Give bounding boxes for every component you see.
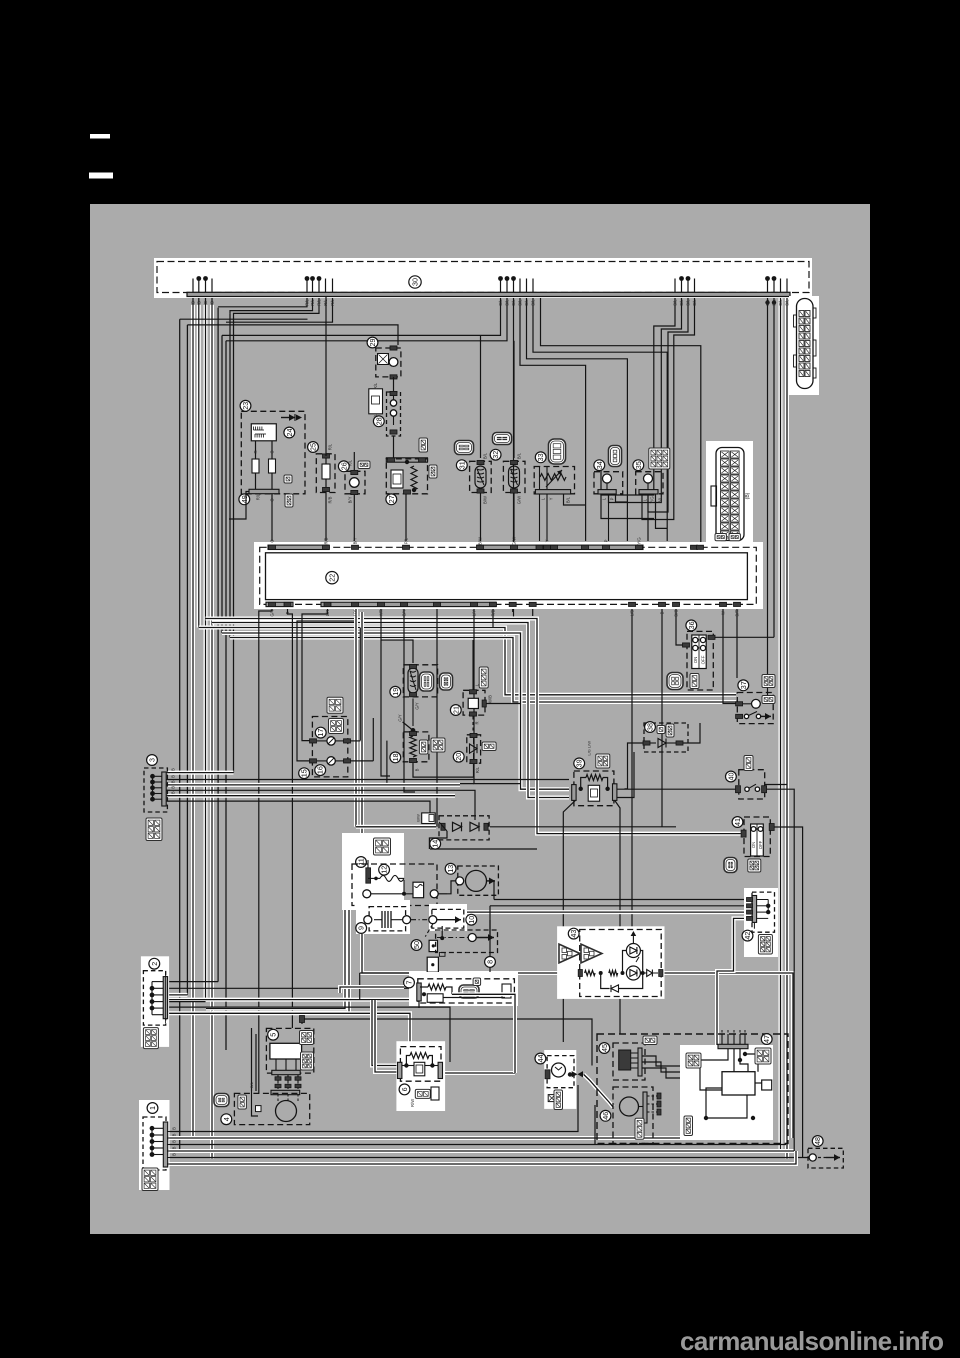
svg-text:41: 41	[733, 818, 742, 826]
switch 40 contacts	[736, 786, 741, 793]
circled number 46	[600, 1110, 611, 1121]
diode unit 14 wire left	[356, 825, 436, 829]
connector 2 harness wires	[167, 981, 218, 983]
svg-text:B/L: B/L	[524, 299, 529, 306]
regulator 5 body	[270, 1043, 302, 1059]
connector 3 pin grid icon	[146, 818, 162, 841]
svg-text:45: 45	[600, 1044, 609, 1052]
ignition coil connector icon	[374, 838, 391, 855]
relay 45 link wires	[631, 1052, 638, 1054]
svg-text:30: 30	[411, 278, 420, 286]
vertical riser x360	[359, 628, 361, 741]
svg-text:B/L: B/L	[692, 299, 697, 306]
injector 31 wire down	[480, 493, 482, 541]
diode 14 input junction	[441, 823, 445, 830]
right feed drops L from top bus to sensors 33-35	[601, 297, 675, 496]
circled number 49	[239, 494, 250, 505]
svg-text:10: 10	[467, 916, 476, 924]
wire connector2 to rectifier area	[167, 1007, 450, 1062]
circled number 23	[240, 400, 251, 411]
sensor 35 connector icon	[649, 448, 670, 469]
connector 2 white panel	[141, 956, 169, 1047]
switch pins	[310, 739, 317, 743]
relay 39 junction dots	[579, 787, 583, 791]
wire ECU pin B-O down to switch 36	[676, 608, 683, 645]
battery lead 48 dashed box	[808, 1148, 843, 1168]
switch 28 pins	[390, 391, 397, 395]
solenoid 19 wire up	[381, 640, 413, 663]
left trunk halo overlay for harness drops	[191, 305, 195, 1138]
sub box 45 dashed	[613, 1043, 645, 1080]
ignition coil core box	[413, 882, 424, 898]
svg-text:G/Y: G/Y	[415, 702, 420, 709]
indicator 43 lower LED	[626, 966, 640, 980]
relay 39 risers to diode 38	[625, 743, 646, 789]
sensor 18 resistor	[410, 736, 416, 757]
ignition area white panel	[342, 833, 404, 910]
regulator 5 interface dashes	[277, 1075, 279, 1089]
diode unit 14 wire right to switch 36 region	[490, 826, 676, 828]
relay 7 coil box	[427, 994, 443, 1003]
fuse 25 wires	[325, 297, 327, 457]
indicator unit 43 white panel	[557, 926, 664, 999]
relay 27 connector icons	[419, 438, 428, 452]
svg-text:B: B	[171, 780, 176, 783]
diode 14 element 1	[453, 822, 462, 831]
diode 14 wire down-right	[429, 831, 447, 849]
sensor 26 wires	[353, 455, 355, 470]
ground 8 arrow	[476, 937, 494, 939]
motor 46 interface dashes	[647, 1095, 658, 1097]
switch 40 connector icon	[744, 756, 753, 771]
svg-text:Y/R: Y/R	[379, 610, 384, 617]
switch right wires	[350, 740, 360, 742]
svg-text:Y: Y	[549, 497, 554, 500]
svg-text:R/L: R/L	[256, 493, 261, 500]
starter relay 39 wires down	[563, 800, 575, 1042]
svg-text:B/L: B/L	[483, 452, 488, 459]
ignition coil primary bar	[366, 868, 371, 883]
wires into meter connector 42	[494, 899, 746, 901]
connector 1 pins and dots	[150, 1126, 155, 1131]
relay 7 dashed box	[418, 979, 515, 1003]
svg-text:B: B	[172, 1146, 177, 1149]
fuel pump 44 outlet valve	[572, 1071, 578, 1077]
svg-text:27: 27	[387, 495, 396, 503]
switch 16 ground circle	[327, 757, 335, 765]
connector 1 bar	[163, 1122, 167, 1167]
ground 10 arrow	[437, 919, 461, 921]
diode unit 14 dashed box	[439, 816, 489, 840]
fuel pump 44 motor	[552, 1063, 566, 1077]
svg-text:B/L: B/L	[658, 496, 663, 503]
sensor 35 dashed box	[636, 472, 663, 494]
switch 36 connector icons	[667, 673, 683, 690]
svg-text:W/B: W/B	[488, 695, 493, 703]
main switch fuse leg 1	[255, 441, 257, 491]
sensor 26 pins	[351, 470, 358, 474]
main switch 23 wire R/L left	[229, 492, 249, 520]
svg-text:21: 21	[451, 706, 460, 714]
clutch switch 41 dashed box	[744, 817, 770, 857]
ECU 22 white backing panel	[254, 542, 763, 609]
svg-text:33: 33	[536, 453, 545, 461]
circled number 50	[411, 940, 422, 951]
svg-text:R/L: R/L	[348, 459, 353, 466]
battery lead 48 node	[809, 1154, 816, 1161]
svg-text:49: 49	[240, 495, 249, 503]
injector 31 coil	[475, 466, 486, 488]
sensor 34 wires	[601, 494, 654, 519]
connector 1 right stubs	[167, 1131, 171, 1133]
ground 10 white backing	[429, 904, 467, 931]
starter motor 46 circle	[620, 1097, 639, 1116]
svg-text:40: 40	[726, 773, 735, 781]
injector 32 feed riser	[513, 341, 515, 458]
tps 21 body	[468, 698, 478, 708]
circled number 44	[535, 1053, 546, 1064]
diagonal link 10 to 50	[425, 924, 433, 937]
svg-text:R/L: R/L	[317, 299, 322, 306]
ECU bottom connector bar A	[266, 602, 293, 606]
indicator 43 series diode	[647, 970, 653, 977]
svg-text:42: 42	[743, 932, 752, 940]
svg-text:R/L: R/L	[475, 766, 480, 773]
main switch 23 bottom connector bar	[249, 489, 279, 493]
svg-text:18: 18	[391, 753, 400, 761]
indicator unit 43 dashed box	[580, 930, 662, 997]
fuse 25 dashed box	[316, 454, 335, 493]
fuel pump 44 outlet diagonal	[584, 1075, 613, 1108]
svg-text:B: B	[210, 301, 215, 304]
svg-text:12: 12	[380, 866, 389, 874]
sensor 29 dashed box	[376, 348, 401, 377]
ignition coil nodes	[363, 890, 371, 898]
relay 27 top bar pins	[388, 458, 395, 462]
svg-text:B/L: B/L	[566, 496, 571, 503]
connector 1 white panel	[139, 1100, 170, 1190]
handlebar switch 15-17 dashed box	[312, 717, 347, 777]
circled number 47	[761, 1034, 772, 1045]
main switch 23 contact detail box	[251, 424, 276, 441]
right trunk haloed pair from bus to bottom	[779, 297, 783, 1152]
left trunk wire bundle verticals	[179, 319, 181, 1151]
svg-text:3: 3	[148, 758, 157, 762]
starter relay 45 body	[619, 1050, 631, 1070]
diode 20 element	[470, 744, 478, 753]
svg-text:R/L: R/L	[328, 443, 333, 450]
connector 2 pin grid icon	[143, 1028, 158, 1049]
rectifier 6 resistor	[410, 1053, 429, 1059]
diode 38 wire right	[679, 723, 700, 743]
wire switch 36 to right trunk	[710, 636, 774, 638]
battery lead 48 stub	[804, 1157, 809, 1159]
switch 41 output wire down right	[775, 827, 803, 1158]
magneto 4 top bar	[271, 1090, 300, 1094]
svg-text:L/Y: L/Y	[353, 610, 358, 616]
sensor 26 dashed box	[345, 471, 365, 494]
svg-text:R/B: R/B	[491, 609, 496, 616]
main switch fuse leg 2	[271, 441, 273, 491]
switch 28 contact circles	[390, 400, 396, 406]
capacitor 9 element	[381, 911, 383, 928]
ECU 22 body white box	[266, 553, 748, 600]
circled number 12	[379, 864, 390, 875]
circled number 19	[390, 686, 401, 697]
switch 40 output wire down right	[767, 789, 795, 1151]
sidestand sensor 18 dashed box	[403, 732, 429, 762]
ground 10 dashed box	[432, 909, 464, 928]
harness 30 main bus bar	[187, 292, 790, 296]
svg-text:L/G L/W: L/G L/W	[587, 741, 592, 756]
throttle sensor 33 base bar	[535, 490, 570, 494]
immobilizer 50 wire	[360, 971, 433, 974]
svg-text:B: B	[191, 301, 196, 304]
vertical riser x373	[372, 718, 374, 761]
multi-pin connector B outline	[716, 448, 744, 541]
relay 7 left wires	[340, 987, 404, 993]
meter connector 42 dashed box	[752, 892, 775, 932]
injector 31 connector icon	[455, 441, 474, 455]
circled number 24	[284, 427, 295, 438]
tps 21 dashed link to diode 20	[472, 717, 474, 732]
ECU top twin pin right	[691, 545, 698, 549]
wire 14 to lean angle cutoff 41	[430, 848, 537, 850]
svg-text:ON: ON	[693, 657, 698, 664]
connector 1 dashed box	[143, 1117, 166, 1170]
injector 32 wire down	[513, 493, 515, 541]
svg-text:B/L: B/L	[686, 299, 691, 306]
sub box 46 dashed	[613, 1087, 653, 1144]
circled number 32	[490, 449, 501, 460]
injector 32 dashed box	[503, 461, 525, 492]
svg-text:G/Y: G/Y	[270, 609, 275, 616]
relay 27 junctions	[405, 460, 409, 464]
sidestand switch arm	[411, 728, 416, 733]
switch 41 connector icons	[724, 858, 737, 873]
svg-text:8: 8	[486, 960, 495, 964]
switch 28 wire down to relay 27	[393, 436, 395, 459]
switch 36 pins	[683, 643, 690, 647]
circled number 5	[268, 1029, 279, 1040]
harness stub pins and junction dots on bus	[192, 279, 194, 293]
rectifier 6 white panel	[396, 1041, 445, 1111]
regulator 5 bottom bar	[272, 1070, 300, 1074]
diagram gray panel	[90, 204, 870, 1234]
svg-text:B: B	[172, 1140, 177, 1143]
indicator 43 resistor 2	[609, 970, 618, 975]
regulator 5 legs	[275, 1059, 277, 1071]
connector 3 harness wires	[167, 771, 233, 775]
svg-text:G/Y: G/Y	[398, 714, 403, 721]
connector 1 circled number	[147, 1103, 158, 1114]
sensor 34 base bar	[598, 490, 616, 494]
sensor 35 base bar	[639, 490, 658, 494]
haloed bus wires ECU-to-right-components	[199, 628, 736, 695]
relay 47 connector icons	[686, 1053, 701, 1068]
wire ECU pin B down	[661, 608, 663, 827]
indicator 43 output pin	[659, 970, 663, 977]
circled number 11	[356, 857, 367, 868]
svg-text:P: P	[604, 539, 609, 542]
svg-text:20: 20	[454, 753, 463, 761]
svg-text:B: B	[660, 611, 665, 614]
magneto 4 coil legs	[277, 1094, 279, 1101]
switch 41 pins	[741, 830, 746, 837]
svg-text:34: 34	[595, 461, 604, 469]
ECU top connector bar B	[477, 545, 643, 549]
joint connector J1 body	[797, 299, 814, 389]
svg-text:36: 36	[687, 621, 696, 629]
connector 3 bar	[162, 772, 166, 806]
svg-text:4: 4	[222, 1117, 231, 1121]
tps 21 connector icon	[479, 667, 488, 688]
svg-text:14: 14	[431, 840, 440, 848]
svg-text:31: 31	[457, 461, 466, 469]
circled number 8	[485, 957, 496, 968]
svg-text:B/Y: B/Y	[348, 496, 353, 503]
relay 7 white panel	[409, 972, 518, 1006]
injector 31 feed riser	[480, 335, 482, 458]
relay 45 bar	[638, 1048, 642, 1076]
svg-text:48: 48	[813, 1137, 822, 1145]
svg-text:B/L: B/L	[673, 299, 678, 306]
circled number 38	[645, 722, 656, 733]
fuel pump 44 icons	[548, 1095, 555, 1102]
ECU bottom pins	[269, 602, 276, 606]
header mark 1	[90, 134, 110, 139]
svg-text:Y/G: Y/G	[650, 496, 655, 503]
injector 32 connector icon	[493, 433, 512, 445]
wires from ECU bottom bars to lower page	[259, 608, 272, 1093]
meter connector 42 internal wires	[757, 899, 768, 901]
circled number 28	[373, 416, 384, 427]
svg-text:R/B: R/B	[328, 496, 333, 503]
ground 8 wires	[440, 936, 444, 940]
svg-text:B: B	[415, 768, 420, 771]
svg-text:B: B	[171, 775, 176, 778]
svg-text:B: B	[172, 1153, 177, 1156]
fan elbow wires from top bus into left trunk	[218, 297, 307, 307]
svg-text:24: 24	[285, 429, 294, 437]
circled number 7	[404, 977, 415, 988]
svg-text:G/W: G/W	[517, 496, 522, 504]
right trunk junction dots	[765, 300, 769, 304]
relay 45 wires right	[642, 1056, 680, 1066]
relay 39 resistor	[586, 775, 603, 781]
switch 15-17 connector icons	[327, 697, 343, 713]
svg-text:B/L: B/L	[249, 1081, 254, 1088]
meter connector 42 bar	[752, 896, 756, 923]
header mark 2	[89, 173, 113, 179]
ECU top pins	[269, 545, 276, 549]
relay 47 aux box	[762, 1080, 772, 1090]
ignition coil 11 ground wire	[359, 973, 361, 1000]
wire ECU pin W down to switch 37	[723, 608, 736, 704]
switch 40 right wire	[765, 784, 787, 786]
svg-text:6: 6	[400, 1087, 409, 1091]
dash-dot link 9 to 10	[411, 919, 429, 921]
svg-text:44: 44	[536, 1055, 545, 1063]
svg-text:B/L: B/L	[778, 299, 783, 306]
ignition coil dashed box	[352, 864, 437, 906]
throttle sensor 33 resistor	[540, 474, 566, 481]
circled number 9	[356, 923, 367, 934]
sensor 26 icon	[358, 461, 370, 469]
rectifier 6 relay box	[414, 1062, 425, 1076]
circled number 36	[686, 620, 697, 631]
switch 28 label box	[369, 389, 383, 414]
svg-text:Y/G: Y/G	[637, 537, 642, 544]
diode 20 dashed box	[467, 735, 481, 763]
svg-text:R/L: R/L	[310, 299, 315, 306]
diode 14 element 2	[470, 822, 479, 831]
circled number 33	[535, 452, 546, 463]
svg-text:28: 28	[374, 417, 383, 425]
svg-text:carmanualsonline.info: carmanualsonline.info	[680, 1326, 943, 1356]
svg-text:OFF: OFF	[701, 655, 706, 664]
spark plug 13 node	[456, 877, 464, 885]
svg-text:50: 50	[412, 941, 421, 949]
tps 21 wires	[472, 640, 474, 690]
relay 47 body box	[722, 1072, 755, 1095]
diode 38 pins	[643, 741, 650, 745]
sensor 34 connector icon	[609, 446, 622, 467]
fuel pump 44 pins	[545, 1070, 550, 1079]
rectifier 6 connector icon	[415, 1089, 430, 1098]
indicator 43 output wire right	[663, 973, 793, 1138]
connector 2 pins and dots	[150, 986, 155, 991]
sensor 34 dashed box	[594, 472, 623, 494]
connector 1 pin grid icon	[142, 1168, 158, 1191]
svg-text:R/W: R/W	[410, 1099, 415, 1107]
main switch 23 dashed box	[241, 411, 305, 494]
circled number 45	[599, 1043, 610, 1054]
svg-text:43: 43	[569, 930, 578, 938]
right trunk dark pair from bus	[767, 297, 769, 700]
circled number 27	[386, 494, 397, 505]
indicator 43 input pin	[578, 970, 582, 977]
relay unit 47 top wires	[721, 1034, 723, 1044]
relay 27 bottom pin	[404, 490, 411, 494]
svg-text:16: 16	[316, 766, 325, 774]
svg-text:G/Y: G/Y	[402, 609, 407, 616]
start switch 37 dashed box	[737, 693, 773, 724]
svg-text:5: 5	[269, 1033, 278, 1037]
connector 51 icon	[422, 813, 436, 824]
svg-text:R/L: R/L	[305, 299, 310, 306]
connector 3 dashed box	[144, 768, 167, 812]
immobilizer 50 squares	[429, 940, 437, 951]
relay 7 connector icons	[459, 985, 479, 998]
sensor 35 element	[644, 474, 653, 483]
ECU bottom connector bar B	[321, 602, 496, 606]
circled number 21	[450, 705, 461, 716]
svg-text:L/Y: L/Y	[472, 610, 477, 616]
rectifier 6 dashed box	[400, 1047, 441, 1082]
switch 28 dashed box	[387, 392, 401, 436]
sensor 35 wires	[647, 494, 649, 518]
svg-text:B: B	[203, 301, 208, 304]
svg-text:W: W	[721, 611, 726, 615]
svg-text:37: 37	[739, 681, 748, 689]
sensor 26 bulb	[350, 478, 360, 488]
svg-text:1: 1	[148, 1106, 157, 1110]
circled number 22	[326, 572, 338, 584]
regulator 5 connector icons	[300, 1031, 314, 1045]
magneto 4 rotor circle	[276, 1101, 297, 1122]
circled number 34	[594, 460, 605, 471]
